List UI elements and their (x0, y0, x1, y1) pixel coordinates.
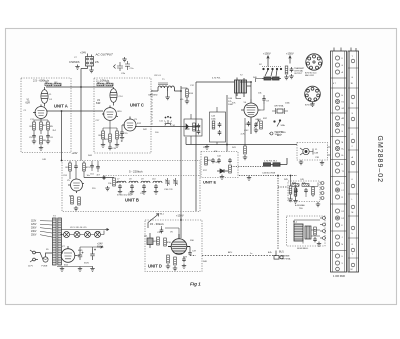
svg-text:200V: 200V (31, 228, 37, 230)
svg-text:UNIT C: UNIT C (130, 103, 144, 108)
variable capacitor C11 (164, 116, 172, 126)
terminal BU2 (269, 132, 273, 135)
wires tube to divider (34, 119, 48, 135)
svg-text:+24V: +24V (72, 152, 78, 155)
phones dashed box (297, 143, 328, 161)
wire phones to strip (328, 147, 331, 155)
resistor R23 (78, 197, 81, 205)
wire box1 internals (296, 183, 318, 198)
svg-text:OSC: OSC (244, 130, 249, 132)
resistor R18 (260, 121, 263, 129)
wire +24V out (77, 247, 102, 256)
lamp L14 (85, 232, 91, 238)
capacitor C24 (74, 164, 78, 169)
capacitor C27 (130, 184, 134, 189)
resistor R25 (205, 157, 213, 165)
tap wires (40, 221, 52, 237)
svg-text:W: W (351, 269, 353, 271)
lamp L15 (95, 232, 101, 238)
tube V7 rectifier (61, 246, 77, 262)
wire P2 down to unit B rail (81, 69, 88, 161)
wire into signal box (278, 186, 288, 188)
capacitor C15 (120, 130, 128, 135)
resistor R33 (292, 183, 299, 187)
svg-text:CRYSTAL: CRYSTAL (274, 105, 285, 108)
svg-text:117V: 117V (28, 266, 33, 268)
page sheet border (6, 29, 397, 305)
resistor R3 (30, 122, 36, 130)
wire R27 (290, 176, 292, 198)
electrolytic C45 (78, 252, 84, 260)
ground unit C a (101, 143, 105, 148)
wires unit C divider (103, 120, 122, 145)
svg-text:M: M (352, 212, 354, 214)
coil L11 (147, 233, 153, 248)
svg-text:250V: 250V (31, 235, 37, 237)
ground L8 (130, 189, 134, 194)
ground unit A mid (39, 146, 43, 151)
antenna arrow S4 (148, 214, 159, 228)
wire R14 top (181, 88, 187, 99)
relay RL1 (294, 224, 311, 241)
ground bell (317, 242, 321, 247)
capacitor C6 (46, 134, 53, 140)
ground unit A right (46, 139, 50, 144)
ground unit C c (120, 135, 124, 140)
resistor R11 (105, 134, 112, 142)
UNIT C dashed enclosure (94, 78, 151, 153)
wires unit B top (70, 161, 84, 179)
tube V1 (33, 105, 48, 119)
crystal X1 (272, 108, 288, 114)
node at V4 plate (250, 81, 252, 83)
mains plug (30, 250, 43, 262)
resistor R13 (116, 131, 124, 139)
svg-text:ATU: ATU (228, 251, 233, 254)
resistor R8 (106, 82, 113, 86)
wire S2 to T2 bus (256, 79, 263, 83)
transformer T3 primary (53, 218, 57, 265)
dotted output line y255.5 (190, 255, 276, 257)
ground R38 (293, 199, 297, 204)
resistor R30 (164, 238, 172, 246)
wire +150V unit D (180, 218, 182, 239)
svg-text:230V: 230V (31, 231, 37, 233)
svg-text:GANGED: GANGED (148, 94, 158, 97)
resistor R1 (45, 82, 52, 86)
svg-text:115V: 115V (31, 221, 37, 223)
UNIT B dashed enclosure (62, 161, 200, 212)
node at R27 top (290, 175, 292, 177)
resistor R27 (289, 186, 292, 194)
tube V5 (68, 179, 84, 193)
svg-text:1 OR PAR: 1 OR PAR (333, 274, 345, 278)
capacitor C18 (197, 124, 201, 129)
ground psu a (60, 267, 64, 272)
capacitor C16 (108, 145, 117, 150)
svg-text:+150V: +150V (176, 214, 184, 218)
capacitor C29 (154, 184, 158, 189)
resistor R4 (40, 122, 47, 130)
electrolytic C46 (90, 249, 96, 260)
resistor R16 (212, 121, 215, 129)
resistor R7 (97, 82, 104, 86)
wire C51 C52 (92, 161, 98, 172)
svg-text:125V: 125V (31, 224, 37, 226)
terminal box1 t3 (320, 192, 324, 195)
capacitor C28 (142, 184, 146, 189)
signal box dashed (288, 181, 320, 202)
resistor R21 (83, 163, 91, 171)
svg-text:B7G 9D 6C4: B7G 9D 6C4 (305, 73, 317, 75)
terminal bell t4 (320, 237, 326, 240)
svg-text:100kc/s: 100kc/s (275, 134, 283, 136)
resistor R6 (40, 136, 47, 144)
terminal bell t3 (320, 230, 326, 233)
wire +150V b (289, 56, 291, 64)
transformer T1 (158, 83, 174, 91)
socket SK1 (306, 54, 322, 70)
coil L2 shielded former (110, 87, 117, 106)
resistor R38 (294, 188, 297, 196)
terminal bell t2 (320, 223, 326, 226)
strip top nubs (334, 48, 356, 52)
+150V feed left (263, 52, 271, 67)
ground unit D b (173, 266, 177, 271)
ground V5 (74, 206, 78, 211)
resistor R9 (99, 131, 105, 139)
svg-text:60mA: 60mA (97, 246, 104, 249)
tube V6 (168, 234, 190, 254)
ground unit E (220, 175, 224, 180)
ground bus psu (57, 266, 93, 268)
svg-text:UNIT A: UNIT A (54, 104, 68, 109)
node at psu heater (61, 234, 63, 236)
wire R38 (295, 185, 297, 199)
strip TS2 frame (348, 51, 359, 272)
inductor L9 (141, 179, 150, 184)
ground L7 (118, 189, 122, 194)
svg-text:M: M (352, 103, 354, 105)
filter box F2 (210, 107, 226, 145)
ground link line (247, 176, 251, 181)
capacitor C42 (294, 188, 298, 193)
tube V3 (122, 117, 137, 132)
resistor R26 (229, 165, 232, 173)
inductor L10 (152, 179, 162, 184)
svg-text:4.7k F.B.: 4.7k F.B. (212, 78, 221, 80)
capacitor C20 (218, 122, 222, 127)
node at filter bus (226, 144, 228, 146)
terminal box1 t1 (320, 182, 324, 185)
terminal bell t1 (320, 217, 326, 220)
resistor R17 (244, 146, 247, 154)
tube V2 (102, 106, 118, 121)
ground mixer (254, 128, 258, 133)
svg-text:BU2 REC: BU2 REC (275, 132, 285, 134)
+150V feed right (286, 52, 294, 64)
wire y82 cluster feed (196, 81, 240, 83)
ground C25 (105, 186, 109, 191)
tube V4 mixer (241, 99, 261, 134)
coil L1 shielded former (41, 87, 48, 107)
capacitor C47 (313, 237, 317, 242)
resistor R5 (47, 122, 54, 130)
arrow +24V (101, 246, 103, 248)
ground phones b (320, 161, 324, 166)
UNIT E dashed enclosure (201, 152, 238, 178)
strip TS1 dividers (331, 78, 347, 251)
ground S2 a (284, 75, 288, 80)
svg-text:6AL5 61R: 6AL5 61R (305, 74, 314, 77)
wire +150V a (267, 56, 269, 67)
capacitor C22 (254, 122, 258, 127)
trimmer C30 (165, 178, 170, 186)
ground unit A left (32, 139, 36, 144)
jack J1 (300, 148, 313, 155)
strip TS2 terminals (351, 59, 355, 267)
socket SK2 (305, 86, 321, 102)
resistor R35 (312, 187, 315, 195)
svg-text:+150V: +150V (263, 52, 271, 56)
svg-text:MARINE: MARINE (281, 255, 290, 258)
dotted vertical x278 (277, 176, 279, 250)
dotted line lower y175.5 (239, 175, 297, 177)
node at V5 output (103, 177, 105, 179)
terminal box1 t2 (320, 187, 324, 190)
node at link line (277, 175, 279, 177)
resistor R32 (174, 257, 177, 265)
svg-text:S3A: S3A (281, 124, 286, 127)
lamp chain wire (61, 230, 105, 235)
terminal box1 t4 (320, 197, 324, 200)
capacitor C36 (182, 257, 186, 262)
ground at chassis (75, 65, 79, 70)
ground T1 (165, 95, 169, 100)
svg-text:B-: B- (342, 155, 344, 157)
inductor L7 (117, 179, 126, 184)
junction +24V rail (61, 110, 63, 112)
wire unit C output y126 (136, 126, 200, 128)
capacitor C40 (211, 158, 219, 164)
resistor R22 (71, 196, 74, 204)
svg-text:UNIT E: UNIT E (203, 180, 216, 185)
svg-text:4.7k F.B. BL2: 4.7k F.B. BL2 (264, 161, 278, 163)
node at unitC output (195, 126, 197, 128)
svg-text:SIGN: SIGN (297, 248, 303, 250)
UNIT D dashed enclosure (145, 220, 202, 272)
strip TS2 dividers (348, 68, 359, 258)
ground below P2 right pin (89, 68, 93, 73)
capacitor C9 (262, 95, 265, 104)
+24V rail vertical (61, 111, 63, 161)
capacitor C37 output (188, 247, 191, 256)
ground unit D a (166, 264, 170, 269)
rotary switch S2 (262, 67, 282, 77)
strip TS1 frame (331, 51, 347, 272)
svg-text:UNIT B: UNIT B (125, 198, 139, 203)
dotted line FB upper (231, 166, 263, 168)
svg-text:OUTPUT: OUTPUT (294, 73, 303, 75)
svg-text:CRYSTAL: CRYSTAL (294, 70, 304, 73)
resistor R24 (113, 178, 119, 186)
svg-text:J: J (342, 237, 343, 239)
ground psu c (90, 267, 94, 272)
svg-text:15 - 30kc/s: 15 - 30kc/s (150, 222, 164, 226)
capacitor C25 (103, 176, 106, 181)
ground socket SK2 (310, 102, 314, 107)
ground phones a (299, 160, 303, 165)
resistor R2 (54, 82, 61, 86)
bell box dashed (287, 216, 326, 246)
svg-text:350V: 350V (84, 263, 89, 265)
lamp L12 (64, 232, 70, 238)
junction dot main bus (80, 86, 82, 88)
arrow 6.3V out (106, 228, 109, 230)
ground psu b (78, 267, 82, 272)
capacitor C35 (160, 228, 164, 233)
svg-text:TRANSMIT: TRANSMIT (294, 67, 305, 70)
transformer T2 (235, 78, 252, 98)
svg-text:A SIGNAL: A SIGNAL (295, 204, 306, 207)
resistor R31 (167, 255, 170, 263)
strip TS1 tags (333, 58, 345, 265)
svg-text:61R: 61R (26, 102, 31, 105)
svg-text:5 - 220kc/s: 5 - 220kc/s (129, 170, 143, 174)
diode D2 (217, 169, 228, 173)
connector P2 (86, 54, 94, 69)
capacitor C43 (304, 188, 308, 193)
ground R17 (243, 155, 247, 160)
divider dashed line y175.5 (103, 175, 200, 177)
svg-text:CHASSIS: CHASSIS (69, 61, 80, 64)
resistor R20 (66, 163, 72, 171)
trimmer arrow C22 (254, 120, 259, 129)
main bus wire y87 (46, 86, 113, 88)
fuse F1 (43, 253, 52, 262)
svg-text:6.3V: 6.3V (96, 232, 101, 234)
filter box F1 (184, 114, 202, 145)
resistor R14 (186, 89, 194, 97)
wire T1 secondary (168, 86, 181, 220)
svg-text:61R: 61R (96, 102, 101, 105)
resistor R19 (285, 66, 288, 74)
resistor R15 (193, 123, 196, 131)
svg-text:Fig 1: Fig 1 (190, 282, 201, 287)
node at +24V unit B (61, 160, 63, 162)
ground L9 (142, 189, 146, 194)
ground L10 (154, 189, 158, 194)
capacitor C51 (90, 164, 94, 169)
capacitor C41 (228, 158, 232, 163)
wire sub-box bottom y144.5 (186, 95, 297, 152)
ground S2 b (289, 74, 293, 79)
svg-text:L12 L13 L14 L15: L12 L13 L14 L15 (70, 227, 87, 229)
trimmer C31 (173, 178, 178, 186)
ground unit C b (115, 143, 119, 148)
svg-text:AC OUTPUT: AC OUTPUT (95, 53, 115, 57)
capacitor C50 (247, 121, 251, 126)
svg-text:+150V: +150V (286, 52, 294, 56)
capacitor C26 (118, 184, 122, 189)
ground unit D c (182, 264, 186, 269)
scattered component value labels (24, 57, 320, 265)
wire V4 plate riser (240, 82, 251, 99)
ground sub-box (205, 145, 209, 150)
wire bell internals (294, 220, 320, 244)
heater wire row (61, 229, 103, 231)
svg-text:FUSE: FUSE (42, 266, 48, 268)
vertical feeder x196 (195, 82, 197, 211)
svg-text:BELL: BELL (303, 248, 309, 250)
resistor R36 (314, 227, 317, 235)
wire unit B out y177.5 (84, 177, 114, 179)
capacitor C21 (218, 130, 222, 135)
svg-text:GM2889–02: GM2889–02 (376, 136, 383, 184)
choke FB1 (262, 77, 281, 80)
mains voltage taps text (31, 221, 37, 237)
resistor R29 (154, 237, 160, 245)
wire T2 to V4 grid (236, 93, 264, 110)
trimmer capacitors C2 (114, 61, 131, 71)
svg-text:C30 C31: C30 C31 (164, 189, 173, 191)
svg-text:C34 BL3 R28: C34 BL3 R28 (262, 173, 276, 175)
ganged dashed link (151, 90, 153, 127)
svg-text:+24V: +24V (80, 51, 86, 55)
capacitor C53 (217, 158, 221, 163)
resistor R34 (302, 183, 309, 187)
choke FB2 (264, 158, 288, 166)
ground R14 (185, 99, 189, 104)
capacitor C52 (96, 165, 100, 170)
wire y91 unitC to T1 (151, 88, 158, 91)
diode D1 (185, 124, 190, 129)
capacitor C23 (290, 67, 294, 72)
lamp L13 (74, 232, 80, 238)
svg-text:C8 1-3: C8 1-3 (154, 75, 161, 77)
wire unit A output y111 (47, 110, 103, 112)
strip TS2 tags (351, 56, 354, 271)
UNIT A dashed enclosure (21, 78, 71, 153)
ground box1 (316, 202, 320, 207)
capacitor C19 (197, 129, 201, 134)
capacitor C5 (29, 134, 36, 140)
node at T1 secondary (180, 90, 182, 92)
ground above trimmers (122, 57, 126, 62)
strip TS1 terminals (335, 56, 339, 271)
svg-text:CRYSTAL: CRYSTAL (281, 258, 292, 261)
vertical x245 grid leak (244, 118, 246, 146)
ground R27 (288, 197, 292, 202)
inductor L8 (129, 179, 138, 184)
crystal unit BU1 (274, 251, 283, 260)
transformer T3 secondary (58, 218, 62, 265)
svg-text:BU1: BU1 (279, 251, 284, 254)
node at unit D feed (180, 219, 182, 221)
svg-text:UNIT D: UNIT D (148, 264, 162, 269)
switch S3 (274, 120, 281, 127)
